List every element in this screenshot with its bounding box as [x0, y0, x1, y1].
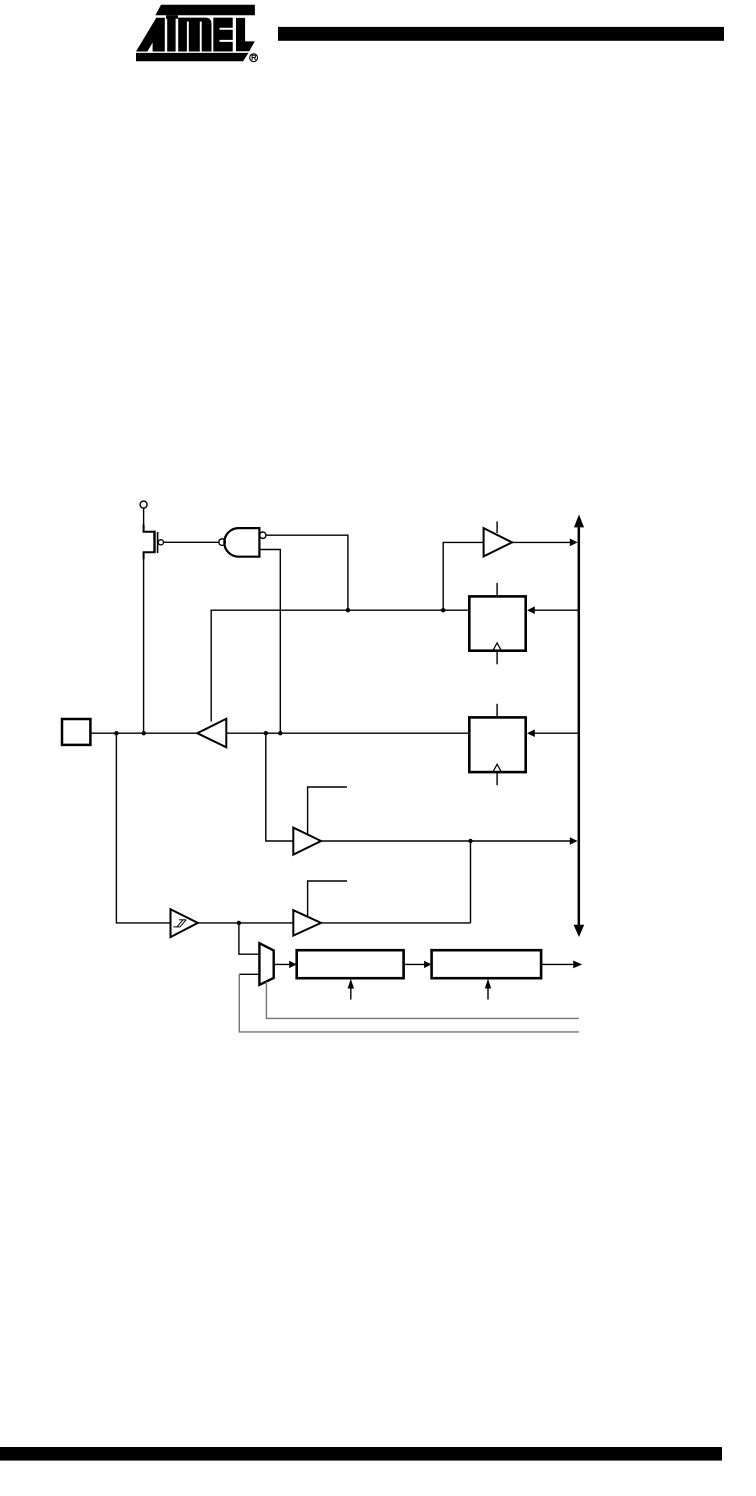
wire node to buffer B1 input: [266, 733, 294, 841]
wire U1 output to bus: [512, 541, 570, 543]
FF2 bottom stub: [496, 772, 498, 785]
arrowhead into FF1: [527, 606, 535, 614]
header rule bar: [278, 27, 724, 41]
transistor Q1 (PMOS pull-up): [144, 525, 158, 560]
wire pad to driver output: [90, 732, 196, 734]
R1 clock arrow: [350, 989, 352, 1000]
flip-flop FF1 top stub: [496, 583, 498, 597]
register R1: [297, 950, 404, 978]
wire pin node down to schmitt input: [116, 733, 170, 923]
wire bus to FF2 input: [535, 732, 578, 734]
junction: [278, 731, 282, 735]
arrowhead into FF2: [527, 729, 535, 737]
gray wire from mux bottom vertex: [266, 982, 579, 1019]
junction: [142, 731, 146, 735]
logo letter L: [236, 18, 255, 51]
logo letter T: [166, 15, 178, 51]
wire mux bottom input: [239, 973, 259, 975]
FF2 clock triangle: [493, 764, 502, 772]
footer rule bar: [0, 1447, 722, 1461]
wire driver input side to FF2: [226, 732, 469, 734]
buffer U1: [484, 528, 512, 556]
buffer B2 enable: [308, 881, 347, 917]
junction: [346, 608, 350, 612]
wire B2 output: [321, 922, 471, 924]
bus top arrowhead: [574, 515, 584, 528]
junction: [468, 839, 472, 843]
wire Q1 source down to pin node: [143, 559, 145, 733]
Atmel logo: [136, 5, 255, 62]
wire junction down to mux top input: [239, 923, 260, 954]
output bubble of U2: [219, 539, 226, 546]
output driver U3 (points left): [197, 719, 226, 748]
junction: [264, 731, 268, 735]
register R2: [432, 950, 541, 978]
wire Q1 gate to NAND output: [164, 541, 219, 543]
buffer U1 enable stub: [496, 521, 498, 533]
junction: [114, 731, 118, 735]
wire Vcc to transistor drain: [143, 508, 145, 525]
hysteresis symbol: [173, 920, 186, 927]
logo letter M: [178, 18, 211, 52]
wire node DD horizontal run: [211, 610, 469, 721]
flip-flop FF2: [469, 717, 525, 772]
gray wire from mux lower input: [239, 974, 579, 1032]
data bus vertical: [578, 527, 581, 926]
FF1 bottom stub: [496, 651, 498, 665]
logo top bar: [155, 5, 255, 15]
wire R1 to R2: [404, 963, 425, 965]
wire node DD up to buffer U1 input: [443, 542, 483, 610]
arrowhead into bus: [570, 837, 578, 845]
wire U2 bubbled input to node DD: [266, 535, 348, 610]
mux M1: [259, 943, 273, 985]
logo letter E: [213, 18, 232, 52]
logo bottom bar: [136, 53, 249, 61]
wire bus to FF1 input: [535, 609, 578, 611]
junction: [237, 921, 241, 925]
wire schmitt output to buffer B2: [198, 922, 293, 924]
flip-flop FF2 top stub: [496, 704, 498, 718]
bus bottom arrowhead: [574, 925, 585, 937]
pull-up supply terminal (Vcc circle): [140, 501, 147, 508]
registered trademark symbol: [250, 54, 258, 62]
output arrowhead: [573, 961, 582, 969]
R2 clock arrow: [487, 989, 489, 1000]
arrowhead into bus: [570, 539, 578, 547]
wire mux output to register R1: [274, 963, 290, 965]
gate bubble of Q1: [158, 540, 163, 545]
arrowhead into R2: [424, 961, 432, 968]
buffer B1: [293, 828, 321, 855]
schmitt trigger U4: [171, 909, 198, 937]
pad square: [62, 719, 90, 745]
logo letter A: [136, 18, 165, 52]
buffer B2: [293, 910, 321, 935]
wire B2 output up to B1 output: [470, 841, 472, 923]
wire R2 output: [541, 963, 574, 965]
junction: [441, 608, 445, 612]
arrowhead into R1: [289, 961, 297, 968]
input bubble of U2: [260, 532, 266, 538]
FF1 clock triangle: [493, 643, 502, 651]
wire B1 output to bus: [321, 840, 570, 842]
flip-flop FF1: [469, 596, 525, 650]
buffer B1 enable: [308, 787, 347, 835]
wire U2 lower input to pin node: [259, 550, 280, 734]
nand gate U2 (mirrored, output on left): [224, 528, 259, 557]
